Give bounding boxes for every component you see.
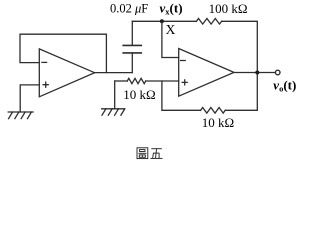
capacitor C1 0.02 uF [123,21,141,72]
svg-text:10 kΩ: 10 kΩ [202,115,234,130]
wire: U1 feedback loop (output to inverting input) [20,34,106,72]
output terminal (open circle) [275,70,280,75]
node X (junction dot) [160,19,164,23]
char: 五 [150,149,162,159]
wire: R3 right up to output node [225,73,257,111]
resistor R3 10 kOhm (bottom feedback) [201,108,226,114]
label: 10 kOhm (middle resistor) [123,87,155,102]
wire: R2 to U2 non-inverting input [146,80,179,82]
ground (left, at U1 + input) [8,112,33,119]
resistor R2 10 kOhm (middle) [127,78,145,83]
svg-text:100 kΩ: 100 kΩ [209,1,248,16]
label: node name X [166,22,176,37]
svg-text:10 kΩ: 10 kΩ [123,87,155,102]
label: 100 kOhm [209,1,248,16]
char: 圖 [137,148,148,159]
caption: Chinese characters "Figure Five" (drawn strokes) [137,148,163,159]
wire: U1 non-inverting input to ground [20,85,39,112]
wire: R1 right to output node [222,21,258,72]
wire: top net from capacitor to node X [132,20,196,22]
wire: middle net corner to R2 [115,80,128,82]
label: 0.02 uF [110,1,148,15]
wire: feedback tap down from + input net [162,81,201,110]
svg-text:X: X [166,22,176,37]
svg-text:0.02 μF: 0.02 μF [110,1,148,15]
op-amp U2 (right) [179,49,234,97]
svg-text:vx(t): vx(t) [160,1,183,17]
resistor R1 100 kOhm [196,19,221,25]
op-amp U1 (left) [39,49,94,97]
svg-text:vo(t): vo(t) [273,77,296,93]
wire: node X down to U2 inverting input [162,21,179,57]
label: vo(t) [273,77,296,93]
label: 10 kOhm (bottom resistor) [202,115,234,130]
wire: U2 output to terminal [234,72,275,74]
wire: U1 output to capacitor [95,72,133,74]
label: vx(t) [160,1,183,17]
junction dot at output node [255,71,259,75]
ground (middle, below R2 left end) [102,81,125,115]
